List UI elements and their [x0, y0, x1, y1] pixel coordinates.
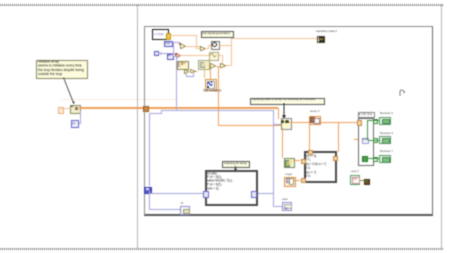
blue vertical const2 riser: [173, 42, 174, 56]
wire icon B down to triangle4: [217, 55, 221, 56]
triangle a: [184, 69, 189, 74]
orange selector stub: [354, 139, 358, 140]
wire triangle3 out / junction: [216, 66, 220, 67]
formula node 2 (if chain): [304, 151, 337, 183]
formula out to riser: [255, 193, 274, 194]
Boolean 7 indicator: [379, 155, 391, 163]
initialize array node: [70, 105, 81, 114]
inputting data label: [250, 98, 325, 105]
case structure: [358, 118, 374, 166]
sticky note comment "initialize array...": [36, 60, 88, 80]
index to replace node: [273, 124, 281, 125]
array length indicator (blue): [71, 120, 79, 128]
wire circle icon to chart riser: [218, 45, 230, 46]
chart riser vertical: [231, 38, 232, 66]
i wire to formula a input: [150, 193, 204, 194]
page boundary left vertical line: [137, 5, 139, 248]
circle icon (reciprocal): [211, 41, 221, 51]
wire down into replace node: [278, 108, 279, 119]
tiny label mark: [160, 52, 162, 55]
wire triangle4 out to chart riser: [226, 65, 231, 66]
stop boolean control: [350, 175, 361, 186]
formula1 left tunnel: [203, 191, 210, 198]
main orange wire (array) init node to replace node: [79, 107, 278, 109]
i wire down to B indicator: [149, 191, 150, 210]
wire terminal to init node: [62, 108, 70, 109]
page boundary bottom dashed line: [0, 248, 443, 250]
Boolean 6 label: [380, 132, 393, 135]
while loop border: [144, 26, 433, 216]
case selector header: [358, 112, 375, 117]
triangle 4: [220, 63, 226, 69]
green wires inside case: [367, 120, 368, 140]
formula2 top-right tunnel: [333, 156, 338, 161]
msgs array indicator: [284, 177, 296, 187]
formula2 left tunnel 2: [301, 178, 306, 183]
blue wire from init node down to length indicator: [80, 111, 81, 123]
index riser V3: [273, 110, 274, 207]
formula1 right tunnel: [251, 191, 258, 198]
i-wire constant feed (blue) to divide: [158, 53, 177, 54]
replace array subset node: [281, 118, 292, 129]
index array icon: [284, 158, 295, 168]
coercion dot mult1: [179, 43, 181, 45]
wire stop to condition terminal: [360, 180, 365, 181]
i wire up (V2): [149, 113, 150, 187]
i terminal on loop border: [144, 187, 152, 194]
index icon out to formula2: [293, 160, 301, 161]
wire const1 to multiply (blue): [171, 42, 180, 43]
Boolean 5 label: [380, 112, 393, 115]
numeric constant box3: [167, 54, 174, 61]
triangle 2: [200, 46, 206, 52]
wire triangle2 to circle icon: [205, 48, 208, 49]
346 multiplier icon: [205, 79, 217, 91]
faint orange ghost wire: [62, 99, 176, 100]
case inner green constant: [362, 156, 368, 162]
arrow from label to replace node: [281, 103, 288, 119]
array 3 label: [310, 110, 319, 113]
wire mult1 to triangle2: [186, 46, 201, 47]
new indicator box: [282, 202, 292, 211]
346 multiplier label: [203, 89, 222, 92]
mouse cursor glyph: [399, 89, 406, 97]
waveform chart icon: [317, 36, 325, 44]
element wire: triangle3 down to replace node element input: [218, 66, 219, 126]
lavender horizontal (index bus): [161, 110, 274, 111]
triangle 3: [210, 63, 216, 69]
riser to new indicator: [273, 206, 282, 207]
case right edge tunnels: [373, 119, 378, 124]
replace node output wire: [290, 122, 309, 123]
loop border tunnel for orange wire: [143, 106, 149, 112]
icon C: [198, 60, 210, 70]
long pale wire divide to icon B: [181, 55, 210, 56]
formula node 1 (indexing): [205, 170, 258, 206]
drop to formula2 top-right: [338, 122, 339, 152]
stop 2 label: [351, 170, 359, 173]
divide triangle (pink): [176, 53, 181, 58]
formula2 left tunnel 1: [301, 159, 306, 164]
Boolean 6 indicator: [379, 136, 391, 144]
vertical icon C bottom to 346 multiplier: [204, 68, 205, 78]
wire icon C to triangle3: [208, 64, 210, 65]
replace node down to index icon: [282, 128, 283, 159]
B indicator box: [180, 206, 190, 214]
test signal generation label: [201, 31, 234, 37]
case inner increment node: [362, 138, 370, 144]
formula2 top-left tunnel: [308, 150, 313, 155]
waveform chart label: [316, 30, 337, 33]
numeric constant small (divide numerator): [154, 51, 160, 57]
msgs wire to formula2: [294, 180, 301, 181]
page boundary right vertical line: [441, 5, 443, 248]
drop to formula2 top-left: [309, 123, 310, 151]
case left tunnel: [357, 120, 362, 125]
indexing for array label: [222, 161, 250, 168]
expression output tunnel (yellow): [166, 33, 171, 40]
page boundary top dashed line: [0, 4, 444, 6]
loop condition terminal: [364, 179, 370, 185]
Boolean 5 indicator: [379, 117, 391, 125]
icon B (sine): [209, 52, 219, 62]
i wire to divide (V1): [176, 55, 177, 111]
connector Tb to icon C: [196, 71, 198, 72]
msgs label: [285, 173, 292, 176]
green wires to boolean indicators: [374, 120, 379, 121]
multiply triangle 1: [180, 43, 186, 50]
vertical multiplier top to triangle3: [210, 69, 211, 79]
numeric control terminal (left of initialize array): [58, 107, 65, 114]
lavender jog: [149, 113, 162, 114]
triangle b: [190, 69, 196, 74]
coercion dot divide: [175, 53, 178, 56]
numeric constant box1: [164, 41, 173, 47]
wire expression to multiply: [169, 35, 197, 36]
blue elbow Ta to Tb: [186, 74, 187, 76]
Boolean 7 label: [380, 150, 393, 153]
expression node (black box) t=2*pi: [152, 29, 169, 40]
array 3 indicator icon: [309, 116, 321, 125]
new indicator label: [282, 198, 288, 201]
chart run horizontal to waveform chart: [231, 38, 317, 39]
icon A: [177, 61, 189, 71]
